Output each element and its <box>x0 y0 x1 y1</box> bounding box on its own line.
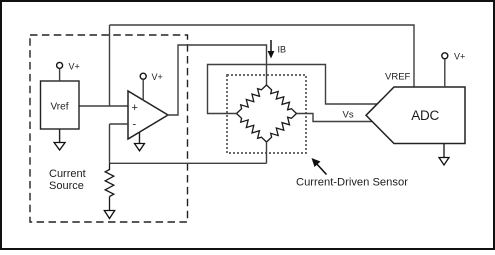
svg-text:V+: V+ <box>69 61 80 71</box>
current source dashed box <box>30 35 188 222</box>
svg-text:Source: Source <box>49 180 84 192</box>
wire: op-amp output up and over to bridge top <box>167 45 267 115</box>
svg-text:ADC: ADC <box>411 108 439 123</box>
wire: bridge bottom node down to sense rail <box>266 142 268 163</box>
ground (ADC) <box>439 144 449 166</box>
IB current arrow <box>268 40 286 59</box>
ground (Vref) <box>54 129 65 150</box>
op-amp U1 <box>128 91 168 139</box>
bridge resistor (bottom-right arm) <box>267 114 297 143</box>
svg-text:VREF: VREF <box>385 72 411 83</box>
svg-text:-: - <box>133 119 137 131</box>
wire: op-amp - input stub <box>110 123 129 125</box>
wire: bridge right node to ADC (Vs-) <box>297 114 373 122</box>
voltage reference Vref <box>41 81 80 129</box>
svg-text:Vref: Vref <box>51 102 69 113</box>
wire: sense rail to bridge bottom <box>110 162 267 164</box>
V+ terminal (op-amp supply) <box>140 72 163 100</box>
svg-text:V+: V+ <box>454 52 465 62</box>
svg-text:V+: V+ <box>152 72 163 82</box>
wire: + node up to top rail <box>109 25 111 106</box>
bridge resistor (top-right arm) <box>267 85 297 114</box>
V+ terminal (Vref supply) <box>57 61 80 81</box>
wire: Vref output to op-amp + input <box>79 105 128 107</box>
sense resistor R1 <box>105 163 114 210</box>
bridge resistor (top-left arm) <box>237 85 267 114</box>
wire: bridge left node over the top to ADC (Vs+) <box>208 65 378 114</box>
label Current Source <box>49 168 86 192</box>
wire: top rail to ADC VREF <box>110 25 415 87</box>
wire: - input down to sense node <box>109 124 111 163</box>
svg-text:+: + <box>132 102 138 114</box>
svg-text:Current: Current <box>49 168 86 180</box>
svg-text:Current-Driven Sensor: Current-Driven Sensor <box>296 176 408 188</box>
svg-text:Vs: Vs <box>343 109 354 120</box>
bridge resistor (bottom-left arm) <box>237 114 267 143</box>
svg-text:IB: IB <box>278 45 287 55</box>
ground (op-amp) <box>135 132 145 151</box>
V+ terminal (ADC supply) <box>442 52 465 88</box>
annotation arrow to sensor box <box>312 158 327 175</box>
current-driven sensor dotted box <box>227 75 306 153</box>
ground (sense resistor) <box>104 211 114 219</box>
ADC U2 <box>366 87 465 144</box>
